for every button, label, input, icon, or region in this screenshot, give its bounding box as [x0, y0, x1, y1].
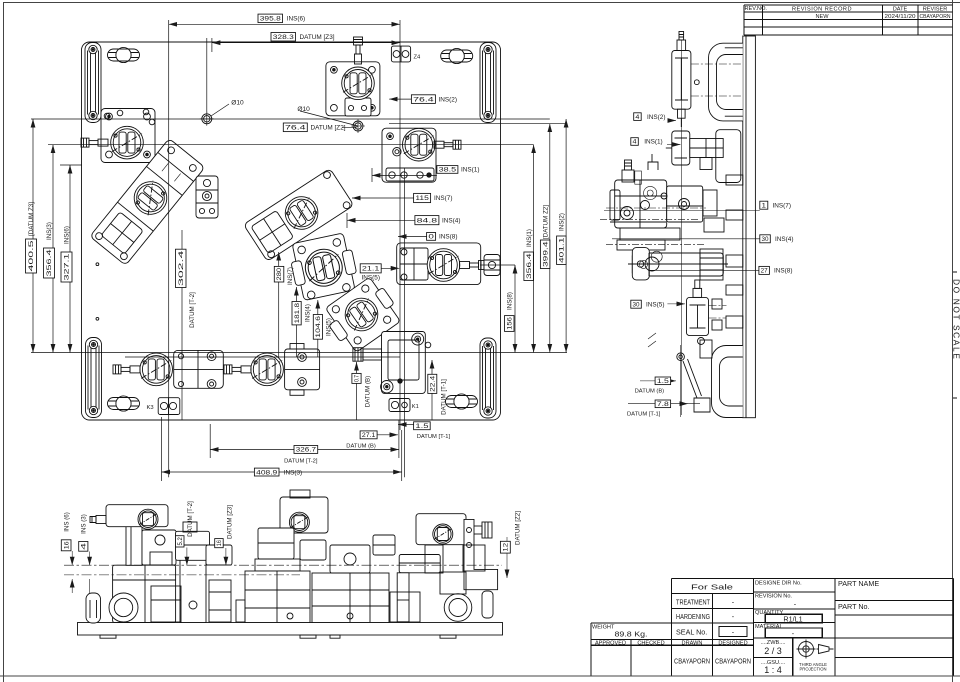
svg-text:INS(2): INS(2): [559, 213, 566, 231]
svg-text:REVISION No.: REVISION No.: [755, 594, 792, 600]
svg-text:INS(3): INS(3): [284, 469, 302, 476]
svg-text:[DATUM Z2]: [DATUM Z2]: [542, 205, 549, 239]
label 4 INS(2) side: [634, 113, 642, 121]
label 399.4 [DATUM Z2]: [540, 240, 550, 269]
label 76.4 INS(2): [411, 95, 435, 104]
bottom clamp handle bracket: [677, 340, 743, 418]
svg-text:DATE: DATE: [893, 6, 908, 12]
bottom: left clamp ring: [109, 593, 138, 622]
label 328.3 DATUM [Z3]: [271, 33, 296, 42]
label 21.1 INS(5): [360, 264, 381, 273]
svg-text:INS(1): INS(1): [526, 229, 533, 247]
bottom: left slot post: [86, 593, 101, 623]
center vertical dims: [181, 230, 183, 420]
svg-text:REVISION RECORD: REVISION RECORD: [792, 6, 852, 12]
label 280 INS(7): [274, 266, 284, 282]
side: top clamp handle: [709, 43, 743, 121]
svg-text:PROJECTION: PROJECTION: [800, 667, 827, 672]
slot guide bottom-left: [86, 338, 102, 418]
label 22.4 DATUM [T-1]: [428, 374, 437, 393]
slot guide top-right: [480, 43, 496, 123]
svg-text:27.1: 27.1: [362, 432, 376, 439]
label 27.1 DATUM (B): [360, 431, 377, 439]
svg-text:328.3: 328.3: [273, 34, 295, 41]
svg-text:CBAYAPORN: CBAYAPORN: [715, 657, 751, 666]
label 327.1 INS(6): [61, 252, 72, 282]
svg-text:DESIGNE DIR No.: DESIGNE DIR No.: [755, 581, 802, 587]
svg-text:76.4: 76.4: [413, 96, 434, 103]
svg-text:16: 16: [216, 540, 223, 547]
svg-text:DATUM [T-2]: DATUM [T-2]: [189, 292, 196, 328]
svg-text:CHECKED: CHECKED: [637, 640, 664, 646]
dim 27.1 B: [377, 434, 398, 436]
svg-text:CBAYAPORN: CBAYAPORN: [674, 657, 710, 666]
slot guide bottom-right: [480, 338, 496, 418]
svg-text:115: 115: [415, 195, 429, 202]
dim 38.5: [372, 174, 437, 176]
center tall tower w/ dial: [236, 490, 328, 623]
svg-text:104.6: 104.6: [315, 315, 322, 337]
svg-text:DATUM (B): DATUM (B): [365, 376, 372, 408]
bracket B1: [196, 176, 218, 218]
svg-text:408.9: 408.9: [256, 469, 278, 476]
dim 395.8: [169, 23, 400, 25]
svg-text:INS(5): INS(5): [326, 318, 333, 336]
svg-text:DATUM (B): DATUM (B): [635, 388, 665, 394]
svg-text:Ø10: Ø10: [231, 100, 244, 107]
svg-text:CBAYAPORN: CBAYAPORN: [920, 14, 951, 20]
label 401.1 INS(2): [557, 236, 567, 265]
clamp unit K1: [353, 332, 431, 412]
third angle projection symbol: [797, 640, 834, 659]
svg-text:HARDENING: HARDENING: [676, 612, 710, 621]
title block grid: [591, 578, 954, 675]
svg-text:2024/11/20: 2024/11/20: [885, 14, 916, 20]
svg-text:181.8: 181.8: [294, 302, 301, 323]
label 1 INS(7) side: [760, 201, 768, 209]
assembly A7 tilted lower: [320, 274, 405, 356]
right vertical dims: [514, 265, 516, 353]
svg-text:INS (3): INS (3): [81, 514, 88, 534]
svg-text:0.7: 0.7: [354, 374, 361, 381]
svg-text:DATUM [Z2]: DATUM [Z2]: [311, 125, 346, 132]
svg-text:27: 27: [761, 268, 768, 275]
side view leader lines: [604, 121, 760, 418]
label 0.7 DATUM (B): [352, 373, 361, 383]
dim 0 INS8: [398, 236, 427, 238]
bottom: centerline: [64, 564, 502, 566]
revision table: [744, 5, 953, 35]
svg-text:K1: K1: [412, 404, 419, 410]
label 5.2 DATUM [T-2]: [176, 536, 185, 547]
dim 1.5 T-1: [398, 424, 414, 426]
svg-text:INS(4): INS(4): [775, 236, 793, 243]
bottom: base plate: [78, 623, 503, 636]
handle bottom-left: [108, 396, 140, 411]
label 104.6 INS(5): [313, 315, 322, 340]
svg-text:INS(4): INS(4): [442, 217, 460, 224]
label 4 INS(1) side: [631, 138, 639, 146]
long extension horizontals: [31, 119, 567, 357]
svg-text:156: 156: [506, 316, 513, 329]
seal no value box: [719, 627, 747, 637]
svg-text:DATUM [T-2]: DATUM [T-2]: [284, 459, 318, 465]
label 356.4 INS(3): [44, 248, 55, 278]
extra cluster details: [600, 171, 726, 347]
svg-text:DATUM [T-1]: DATUM [T-1]: [627, 412, 661, 418]
handle top-left: [108, 47, 140, 62]
svg-text:INS(8): INS(8): [439, 234, 457, 241]
svg-text:INS(1): INS(1): [644, 139, 662, 146]
assembly A10 bottom-center: [224, 344, 320, 396]
label 1.5 DATUM (B) side: [655, 377, 671, 385]
svg-text:INS(2): INS(2): [647, 114, 665, 121]
svg-text:280: 280: [276, 267, 283, 280]
svg-text:K3: K3: [147, 405, 154, 411]
mid dial unit edge-on INS(1): [666, 131, 723, 170]
svg-text:INS(8): INS(8): [506, 292, 513, 310]
label 156 INS(8): [505, 316, 515, 332]
quantity value box: [765, 614, 822, 623]
label 326.7 DATUM [T-2]: [294, 446, 318, 454]
label 16 DATUM [Z3]: [215, 539, 224, 548]
label 181.8 INS(4): [292, 302, 301, 325]
svg-text:INS(1): INS(1): [461, 167, 479, 174]
svg-text:302.4: 302.4: [178, 249, 185, 286]
svg-text:TREATMENT: TREATMENT: [676, 598, 710, 607]
svg-text:76.4: 76.4: [285, 125, 306, 132]
label 30 INS(5) side: [631, 300, 642, 308]
svg-text:DRAWN: DRAWN: [682, 640, 703, 646]
svg-text:DATUM (B): DATUM (B): [346, 443, 376, 449]
left vertical dims: [32, 119, 34, 353]
assembly A2 tilted lower-left: [90, 138, 205, 265]
svg-text:401.1: 401.1: [559, 237, 566, 263]
bottom view dim arrows: [72, 537, 507, 593]
svg-text:1: 1: [762, 202, 767, 209]
svg-text:REV.NO.: REV.NO.: [745, 6, 768, 12]
handle bottom-right: [446, 394, 478, 409]
svg-text:REVISER: REVISER: [923, 6, 948, 12]
label 400.5 [DATUM Z3]: [26, 239, 37, 273]
svg-text:395.8: 395.8: [260, 16, 282, 23]
svg-text:PART NAME: PART NAME: [838, 579, 879, 588]
datum hole D10 right: [351, 119, 365, 133]
dim 76.4 INS2 leader: [389, 98, 411, 100]
label 76.4 DATUM [Z2]: [283, 123, 307, 132]
svg-text:DATUM [T-1]: DATUM [T-1]: [417, 434, 451, 440]
lower horizontal arm: [628, 248, 728, 280]
label 0 INS(8): [427, 233, 436, 241]
label 27 INS(8) side: [759, 266, 770, 274]
svg-text:WEIGHT: WEIGHT: [592, 625, 615, 631]
svg-text:INS(6): INS(6): [64, 226, 71, 244]
label 7.8 DATUM [T-1] side: [655, 400, 671, 408]
svg-text:For Sale: For Sale: [691, 583, 733, 592]
mid-right blocks: [312, 545, 440, 623]
dim 408.9: [162, 471, 402, 473]
long extension verticals: [169, 20, 405, 477]
svg-text:400.5: 400.5: [28, 239, 35, 271]
svg-text:DESIGNED: DESIGNED: [718, 640, 747, 646]
svg-text:5.2: 5.2: [177, 537, 184, 546]
svg-text:399.4: 399.4: [542, 241, 549, 267]
leader D10 left: [211, 104, 229, 116]
label 408.9 INS(3): [254, 468, 279, 476]
clamp bracket K3: [158, 398, 180, 415]
dim 326.7: [210, 449, 399, 451]
side: mid bracket: [716, 130, 741, 183]
svg-text:INS(5): INS(5): [362, 274, 380, 281]
datum hole D10 left: [200, 112, 214, 126]
label 395.8 INS(6): [258, 14, 283, 23]
side view datum centerline: [681, 40, 683, 415]
svg-text:1.5: 1.5: [415, 423, 429, 430]
assembly A9 bottom-left: [113, 350, 223, 388]
svg-text:[DATUM Z3]: [DATUM Z3]: [28, 202, 35, 236]
assembly A6 center: [287, 232, 360, 302]
svg-text:Z4: Z4: [414, 55, 422, 61]
svg-text:INS(7): INS(7): [773, 202, 791, 209]
svg-text:2 / 3: 2 / 3: [764, 646, 782, 656]
svg-text:APPROVED: APPROVED: [595, 640, 626, 646]
svg-text:QUANTITY: QUANTITY: [755, 610, 784, 616]
svg-text:4: 4: [633, 139, 637, 146]
svg-text:INS(7): INS(7): [434, 195, 452, 202]
svg-text:89.8 Kg.: 89.8 Kg.: [615, 630, 648, 639]
svg-text:Ø10: Ø10: [297, 106, 310, 113]
label 84.8 INS(4): [415, 216, 439, 225]
svg-text:DATUM [Z3]: DATUM [Z3]: [300, 34, 335, 41]
svg-text:R1/L1: R1/L1: [783, 615, 802, 624]
svg-text:MATERIAL: MATERIAL: [755, 624, 783, 630]
svg-text:22.4: 22.4: [429, 375, 436, 392]
label 1.5 DATUM [T-1]: [414, 422, 431, 430]
assembly A1 left (INS3): [81, 109, 155, 163]
svg-text:INS(6): INS(6): [287, 16, 305, 23]
assembly A3 top-center (INS6): [326, 37, 380, 116]
svg-text:DATUM [T-2]: DATUM [T-2]: [187, 501, 194, 537]
svg-text:356.4: 356.4: [526, 253, 533, 279]
DO NOT SCALE bracket: [953, 272, 957, 398]
svg-text:12: 12: [503, 542, 510, 552]
svg-text:INS(7): INS(7): [287, 267, 294, 285]
right cluster w/ dial INS + L bracket: [416, 514, 498, 622]
svg-text:INS (6): INS (6): [63, 512, 70, 532]
handle top-right: [441, 48, 473, 63]
svg-text:DATUM [Z3]: DATUM [Z3]: [227, 505, 234, 539]
svg-text:4: 4: [81, 542, 88, 550]
label 115 INS(7): [414, 193, 431, 202]
small pin holes: [96, 263, 99, 266]
side: fixture plate edge: [743, 36, 756, 418]
svg-text:84.8: 84.8: [417, 217, 438, 224]
top dial unit edge-on INS(2): [672, 32, 742, 128]
foot pads: [100, 635, 456, 638]
assembly A8 right (INS8): [397, 243, 500, 285]
main base plate: [82, 42, 501, 420]
leader D10 right: [300, 111, 358, 126]
svg-text:DO NOT SCALE: DO NOT SCALE: [952, 279, 960, 360]
label 302.4 DATUM [T-2]: [176, 249, 187, 287]
label 4 INS (3): [79, 542, 88, 552]
svg-text:INS(8): INS(8): [774, 268, 792, 275]
left tower w/ dial INS(6): [90, 505, 176, 623]
assembly A5 tilted center: [243, 168, 353, 261]
extra blocks: [151, 535, 485, 622]
svg-text:INS(3): INS(3): [46, 222, 53, 240]
svg-text:DATUM [Z2]: DATUM [Z2]: [515, 511, 522, 545]
label 12 DATUM [Z2]: [500, 541, 510, 553]
label 38.5 INS(1): [437, 166, 458, 174]
svg-text:356.4: 356.4: [46, 249, 53, 277]
svg-text:16: 16: [63, 541, 70, 550]
svg-text:7.8: 7.8: [657, 401, 670, 408]
label 30 INS(4) side: [760, 235, 771, 243]
dim 21.1 leader: [381, 267, 399, 269]
svg-text:NEW: NEW: [815, 14, 829, 20]
svg-text:4: 4: [635, 114, 639, 121]
svg-text:38.5: 38.5: [439, 167, 457, 174]
dim 84.8: [347, 219, 415, 221]
svg-text:30: 30: [762, 236, 769, 243]
svg-text:DATUM [T-1]: DATUM [T-1]: [441, 379, 448, 415]
svg-text:1.5: 1.5: [657, 378, 670, 385]
svg-text:327.1: 327.1: [64, 253, 71, 281]
dim 115: [352, 197, 414, 199]
material value box: [765, 628, 822, 638]
svg-text:INS(4): INS(4): [304, 304, 311, 322]
svg-text:SEAL No.: SEAL No.: [676, 628, 707, 637]
svg-text:1 : 4: 1 : 4: [764, 665, 782, 675]
svg-text:INS(5): INS(5): [646, 301, 664, 308]
svg-text:326.7: 326.7: [296, 447, 317, 454]
dim 328.3: [212, 42, 400, 44]
svg-text:21.1: 21.1: [362, 266, 380, 273]
slot guide top-left: [85, 43, 101, 123]
label 356.4 INS(1): [524, 252, 534, 281]
svg-text:PART No.: PART No.: [838, 602, 870, 611]
svg-text:INS(2): INS(2): [439, 96, 457, 103]
svg-text:0: 0: [428, 234, 434, 241]
second tower: [176, 522, 232, 623]
label 16 INS (6): [61, 540, 71, 551]
central machinery cluster: [606, 154, 743, 328]
mid lower unit INS(5): [687, 280, 727, 345]
Z4 clamp bracket: [391, 46, 410, 62]
svg-text:30: 30: [633, 301, 640, 308]
dim 76.4 DATUM Z2 leader: [342, 126, 358, 127]
assembly A4 (INS1): [382, 128, 461, 182]
